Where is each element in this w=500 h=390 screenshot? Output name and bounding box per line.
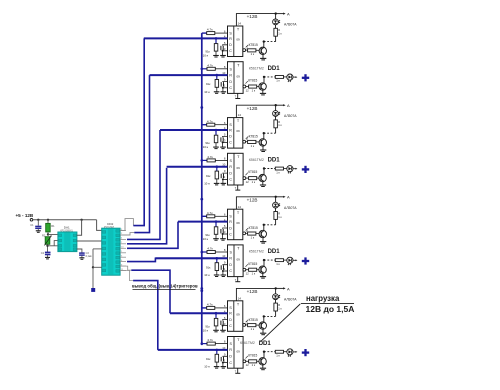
LED output (block 4) <box>287 166 293 172</box>
node junction R/pull-down (block 8) <box>216 349 219 352</box>
svg-text:4,7к: 4,7к <box>207 155 213 159</box>
node A arrow (pair 1) <box>276 13 284 15</box>
transistor KT815 (block 2) <box>259 83 266 90</box>
node junction R1/R2 to pin 7 <box>47 232 49 235</box>
node junction R/pull-down (block 6) <box>216 257 219 260</box>
svg-text:АЛ307А: АЛ307А <box>284 23 297 27</box>
svg-text:10 н: 10 н <box>203 54 209 58</box>
svg-text:12: 12 <box>246 272 250 276</box>
svg-text:АЛ307А: АЛ307А <box>284 206 297 210</box>
wire counter output 1 to block 1 (bus vertical) <box>120 219 133 231</box>
label KT815 (block 8) <box>246 356 248 359</box>
resistor 1k LED (block 5) <box>275 219 277 224</box>
svg-text:D: D <box>229 226 232 230</box>
node A arrow (pair 3) <box>276 196 284 198</box>
label KT815 (block 1) <box>246 45 249 47</box>
output Q pin 12 (block 6) <box>243 268 246 271</box>
svg-text:R: R <box>229 257 232 261</box>
resistor 1k base (block 6) <box>249 268 257 271</box>
output Q pin 2 (block 1) <box>243 49 246 52</box>
wire LED output arrow (block 4) <box>293 168 296 170</box>
capacitor 10n at C input (block 6) <box>223 264 228 267</box>
resistor 1k LED (block 8) <box>275 350 283 353</box>
svg-text:D: D <box>229 171 232 175</box>
svg-text:10 н: 10 н <box>204 365 210 369</box>
svg-text:12В до 1,5А: 12В до 1,5А <box>306 304 355 314</box>
capacitor C2 <box>45 251 51 253</box>
svg-text:+12В: +12В <box>247 106 258 111</box>
resistor 1k LED (block 6) <box>275 259 283 262</box>
ground emitter (block 7) <box>260 332 266 334</box>
LED AL307A (block 3) <box>275 116 277 120</box>
wire callout leader line <box>260 304 300 342</box>
flip-flop DD1.8 body (block 8) <box>228 337 244 369</box>
svg-text:КТ815: КТ815 <box>249 226 258 230</box>
transistor KT815 (block 8) <box>259 358 266 365</box>
resistor 4.7k input S (block 5) <box>202 215 207 217</box>
svg-text:АЛ307А: АЛ307А <box>284 297 297 301</box>
wire collector (block 5) <box>263 225 265 231</box>
transistor KT815 (block 1) <box>259 47 266 54</box>
resistor 4.7k input S (block 4) <box>201 159 204 162</box>
svg-text:D: D <box>229 43 232 47</box>
svg-text:09: 09 <box>237 258 241 262</box>
wire +12V rail (pair 1) <box>236 14 275 26</box>
resistor 91k pull-down (block 8) <box>215 354 219 362</box>
svg-text:R: R <box>229 37 232 41</box>
ground capacitor (block 1) <box>220 55 226 57</box>
label KT815 (block 2) <box>246 81 248 84</box>
wire emitter to ground (block 1) <box>262 54 264 58</box>
resistor 91k pull-down (block 4) <box>215 171 219 179</box>
plus polarity mark (block 4) <box>302 168 309 170</box>
svg-text:10 н: 10 н <box>203 145 209 149</box>
resistor 1k LED (block 4) <box>275 167 283 170</box>
svg-text:C: C <box>229 232 232 236</box>
capacitor C1 <box>37 220 39 226</box>
capacitor 10n at C input (block 1) <box>223 44 228 47</box>
flip-flop DD1.3 body (block 3) <box>228 118 243 149</box>
capacitor 10n at C input (block 7) <box>223 319 228 322</box>
svg-text:12: 12 <box>246 88 250 92</box>
wire counter output 4 to block 4 (bus vertical) <box>127 168 167 244</box>
wire R input from counter (block 3) <box>160 129 228 131</box>
pin 7 ground stub (block 8) <box>237 368 239 373</box>
pin 7 ground stub (block 6) <box>237 277 239 282</box>
node junction R/pull-down (block 7) <box>215 312 218 315</box>
svg-text:10 н: 10 н <box>204 90 210 94</box>
flip-flop DD1.1 body (block 1) <box>228 26 243 57</box>
transistor KT815 (block 5) <box>259 230 266 237</box>
svg-text:+12В: +12В <box>247 14 258 19</box>
ground pull-down (block 1) <box>213 55 219 57</box>
resistor 91k pull-down (block 6) <box>215 263 219 271</box>
resistor 4.7k input S (block 1) <box>202 32 207 34</box>
wire counter output 6 to block 6 (jog) <box>127 258 228 261</box>
svg-text:КТ815: КТ815 <box>249 43 258 47</box>
node junction on S line at underlined note <box>200 287 203 290</box>
svg-text:D: D <box>229 355 232 359</box>
svg-text:09: 09 <box>237 75 241 79</box>
svg-text:нагрузка: нагрузка <box>306 294 340 303</box>
svg-text:DD1: DD1 <box>268 66 281 72</box>
output Q pin 12 (block 8) <box>243 360 246 363</box>
flip-flop DD1.5 body (block 5) <box>228 209 243 240</box>
svg-text:А: А <box>287 195 290 200</box>
capacitor 10n at C input (block 2) <box>223 81 228 84</box>
LED AL307A (block 7) <box>275 300 277 304</box>
wire collector (block 1) <box>263 42 265 48</box>
node junction R/pull-down (block 1) <box>215 37 218 40</box>
ground emitter (block 4) <box>260 184 266 186</box>
svg-text:14: 14 <box>238 296 242 300</box>
svg-text:D: D <box>229 263 232 267</box>
svg-text:R: R <box>229 73 232 77</box>
ground capacitor (block 4) <box>221 182 227 184</box>
resistor 91k pull-down (block 7) <box>214 318 218 326</box>
LED AL307A (block 1) <box>275 25 277 29</box>
ground capacitor (block 7) <box>220 329 226 331</box>
svg-text:DD1: DD1 <box>268 249 281 255</box>
ground capacitor (block 2) <box>221 91 227 93</box>
transistor KT815 (block 4) <box>259 174 266 181</box>
svg-text:К561ТМ2: К561ТМ2 <box>249 250 264 254</box>
transistor KT815 (block 6) <box>259 266 266 273</box>
wire counter output 8 to block 8 (staircase down) <box>120 271 133 281</box>
ground pull-down (block 8) <box>214 366 220 368</box>
ground emitter (block 8) <box>260 367 266 369</box>
svg-text:АЛ307А: АЛ307А <box>284 114 297 118</box>
svg-text:R: R <box>278 303 280 307</box>
output Q pin 2 (block 3) <box>243 140 246 143</box>
svg-text:09: 09 <box>236 221 240 225</box>
ground capacitor (block 6) <box>221 274 227 276</box>
ground pull-down (block 2) <box>214 91 220 93</box>
wire emitter to ground (block 8) <box>262 365 264 368</box>
resistor 1k base (block 1) <box>248 49 256 52</box>
svg-text:09: 09 <box>237 349 241 353</box>
node junction R/pull-down (block 2) <box>216 74 219 77</box>
wire counter output 2 to block 2 (bus vertical) <box>120 233 134 235</box>
wire emitter to ground (block 5) <box>262 238 264 242</box>
node junction +12V/LED (pair 1) <box>275 12 277 14</box>
svg-text:КТ815: КТ815 <box>248 262 257 266</box>
ground emitter (block 1) <box>260 57 266 59</box>
svg-text:R: R <box>229 348 232 352</box>
capacitor 10n at C input (block 4) <box>223 172 228 175</box>
resistor R1 timing <box>47 220 49 224</box>
flip-flop DD1.6 body (block 6) <box>228 245 244 277</box>
wire VCC to timer pins 8,4 <box>80 219 82 221</box>
resistor 91k pull-down (block 3) <box>214 135 218 143</box>
wire R input from counter (block 4) <box>167 166 228 168</box>
label KT815 (block 3) <box>246 137 249 139</box>
ground pull-down (block 5) <box>213 238 219 240</box>
wire collector to LED row (block 4) <box>263 169 265 175</box>
node junction R/pull-down (block 5) <box>215 220 218 223</box>
transistor KT815 (block 7) <box>259 322 266 329</box>
LED output (block 6) <box>287 257 293 263</box>
plus polarity mark (block 2) <box>302 77 309 79</box>
svg-text:09: 09 <box>236 312 240 316</box>
label KT815 (block 4) <box>246 173 248 176</box>
wire +12V rail (pair 4) <box>236 288 275 300</box>
resistor 1k base (block 2) <box>249 85 257 88</box>
wire LED output arrow (block 6) <box>293 259 296 261</box>
pin 7 ground stub (block 4) <box>237 185 239 190</box>
terminal supply input <box>30 219 33 222</box>
svg-text:12: 12 <box>246 180 250 184</box>
wire LED output arrow (block 8) <box>293 351 296 353</box>
resistor 1k LED (block 7) <box>275 311 277 316</box>
wire collector to LED row (block 2) <box>263 77 265 83</box>
wire collector (block 3) <box>263 133 265 139</box>
svg-text:4,7к: 4,7к <box>207 28 213 32</box>
ground C2 <box>45 256 50 258</box>
ground C3 <box>79 257 84 259</box>
label KT815 (block 7) <box>246 320 249 322</box>
wire collector to LED row (block 8) <box>263 352 265 358</box>
output Q pin 12 (block 4) <box>243 177 246 180</box>
svg-text:R: R <box>229 220 232 224</box>
ground emitter (block 5) <box>260 241 266 243</box>
svg-text:вывод общ. (выв.14)триггеров: вывод общ. (выв.14)триггеров <box>132 284 198 289</box>
node junction R2/C2 to pins 2,6 <box>47 244 49 252</box>
wire collector to LED row (block 6) <box>263 260 265 266</box>
ground pull-down (block 3) <box>213 146 219 148</box>
svg-text:0,1мк: 0,1мк <box>86 255 93 258</box>
wire R input from counter (block 1) <box>144 37 228 39</box>
svg-text:R: R <box>278 28 280 32</box>
svg-text:А: А <box>287 12 290 17</box>
wire R input from counter (block 2) <box>150 74 228 76</box>
ground emitter (block 2) <box>260 92 266 94</box>
ground C1 <box>36 230 41 232</box>
svg-text:C: C <box>229 361 232 365</box>
wire R input from counter (block 7) <box>170 312 228 314</box>
svg-text:C: C <box>229 269 232 273</box>
resistor 4.7k input S (block 6) <box>201 251 204 254</box>
wire +12V rail (pair 2) <box>236 105 275 117</box>
ground emitter (block 3) <box>260 149 266 151</box>
resistor 1k LED (block 1) <box>275 36 277 41</box>
wire +12V rail (pair 3) <box>236 197 275 209</box>
svg-text:10 н: 10 н <box>203 328 209 332</box>
wire emitter to ground (block 4) <box>262 182 264 185</box>
node junction +12V/LED (pair 4) <box>275 287 277 289</box>
ground capacitor (block 8) <box>221 366 227 368</box>
svg-text:DD1: DD1 <box>268 158 281 164</box>
ground pull-down (block 6) <box>214 274 220 276</box>
svg-text:КТ815: КТ815 <box>248 353 257 357</box>
svg-text:12: 12 <box>246 363 250 367</box>
svg-text:14: 14 <box>238 205 242 209</box>
svg-text:4,7к: 4,7к <box>207 63 213 67</box>
node junction R/pull-down (block 3) <box>215 129 218 132</box>
wire counter output 7 to block 7 (staircase down) <box>120 266 131 270</box>
svg-text:КТ815: КТ815 <box>248 170 257 174</box>
LED output (block 8) <box>287 349 293 355</box>
node junction +12V/LED (pair 2) <box>275 104 277 106</box>
svg-text:D: D <box>229 135 232 139</box>
capacitor 10n at C input (block 8) <box>223 355 228 358</box>
resistor 1k base (block 7) <box>248 324 256 327</box>
svg-text:R: R <box>278 211 280 215</box>
svg-text:КТ815: КТ815 <box>249 135 258 139</box>
LED AL307A (block 5) <box>275 208 277 212</box>
resistor 91k pull-down (block 5) <box>214 227 218 235</box>
svg-text:4,7к: 4,7к <box>207 303 213 307</box>
wire common S line (vertical bus) <box>201 33 203 345</box>
label KT815 (block 6) <box>246 264 248 267</box>
label KT815 (block 5) <box>246 228 249 230</box>
node junction +12V/LED (pair 3) <box>275 196 277 198</box>
resistor 1k base (block 5) <box>248 232 256 235</box>
plus polarity mark (block 6) <box>302 260 309 262</box>
svg-text:С2: С2 <box>41 251 45 255</box>
wire emitter to ground (block 6) <box>262 273 264 276</box>
counter DD2 right pin stubs <box>120 230 126 232</box>
capacitor 10n at C input (block 3) <box>223 135 228 138</box>
wire emitter to ground (block 2) <box>262 90 264 93</box>
svg-text:C: C <box>229 178 232 182</box>
node junction C1 <box>37 219 39 221</box>
svg-text:К561ТМ2: К561ТМ2 <box>249 66 264 70</box>
svg-text:R1: R1 <box>51 224 55 228</box>
ground pull-down (block 4) <box>214 182 220 184</box>
wire supply rail <box>33 219 97 221</box>
resistor 4.7k input S (block 2) <box>201 68 204 71</box>
wire callout underline <box>301 303 354 305</box>
svg-text:+5 - 12В: +5 - 12В <box>16 213 34 218</box>
svg-text:R: R <box>229 128 232 132</box>
ground pull-down (block 7) <box>213 329 219 331</box>
wire counter output 3 to block 3 (bus vertical) <box>127 130 160 239</box>
svg-text:К561ТМ2: К561ТМ2 <box>249 158 264 162</box>
resistor 4.7k input S (block 8) <box>201 342 204 345</box>
flip-flop DD1.7 body (block 7) <box>228 301 243 332</box>
svg-text:А: А <box>287 286 290 291</box>
wire timer output pin 3 to counter clock <box>77 240 102 242</box>
svg-text:R: R <box>278 120 280 124</box>
svg-text:C: C <box>229 324 232 328</box>
resistor 1k LED (block 3) <box>275 128 277 133</box>
resistor 1k base (block 4) <box>249 177 257 180</box>
node junction R/pull-down (block 4) <box>216 165 219 168</box>
node junction R1 <box>47 219 49 221</box>
svg-text:С1: С1 <box>30 223 34 227</box>
svg-text:D: D <box>229 318 232 322</box>
resistor 4.7k input S (block 3) <box>202 124 207 126</box>
wire R input from counter (block 5) <box>178 221 228 223</box>
wire counter output 5 to block 5 (bus vertical) <box>127 222 178 249</box>
wire collector (block 7) <box>263 316 265 322</box>
svg-text:14: 14 <box>238 22 242 26</box>
output Q pin 2 (block 7) <box>243 324 246 327</box>
resistor 1k base (block 8) <box>249 360 257 363</box>
svg-text:+12В: +12В <box>247 289 258 294</box>
resistor 1k LED (block 2) <box>275 76 283 79</box>
ground capacitor (block 5) <box>220 238 226 240</box>
svg-text:14: 14 <box>238 113 242 117</box>
transistor KT815 (block 3) <box>259 139 266 146</box>
svg-text:09: 09 <box>237 166 241 170</box>
ground capacitor (block 3) <box>220 146 226 148</box>
svg-text:А: А <box>287 103 290 108</box>
svg-text:4,7к: 4,7к <box>207 338 213 342</box>
wire DD2 pin 13 and grounds to common point <box>93 248 102 250</box>
flip-flop DD1.4 body (block 4) <box>228 153 244 185</box>
svg-text:КТ815: КТ815 <box>248 79 257 83</box>
svg-text:4,7к: 4,7к <box>207 247 213 251</box>
svg-text:09: 09 <box>236 38 240 42</box>
node A arrow (pair 2) <box>276 104 284 106</box>
output Q pin 12 (block 2) <box>243 85 246 88</box>
svg-text:C: C <box>229 86 232 90</box>
svg-text:4,7к: 4,7к <box>207 119 213 123</box>
resistor 91k pull-down (block 1) <box>214 44 218 52</box>
resistor 91k pull-down (block 2) <box>215 80 219 88</box>
svg-text:09: 09 <box>236 129 240 133</box>
svg-text:C: C <box>229 141 232 145</box>
plus polarity mark (block 8) <box>302 351 309 353</box>
svg-text:DA1: DA1 <box>64 226 70 230</box>
pin 7 ground stub (block 2) <box>237 93 239 98</box>
node A arrow (pair 4) <box>276 287 284 289</box>
flip-flop DD1.2 body (block 2) <box>228 62 244 94</box>
resistor 4.7k input S (block 7) <box>202 307 207 309</box>
svg-text:10 н: 10 н <box>204 273 210 277</box>
svg-text:4,7к: 4,7к <box>207 211 213 215</box>
svg-text:R: R <box>229 312 232 316</box>
capacitor C3 <box>77 249 82 253</box>
wire LED output arrow (block 2) <box>293 76 296 78</box>
svg-text:10 н: 10 н <box>204 182 210 186</box>
svg-text:КТ815: КТ815 <box>249 318 258 322</box>
wire R input from counter (block 8) <box>158 349 228 351</box>
svg-text:D: D <box>229 80 232 84</box>
svg-text:+12В: +12В <box>247 197 258 202</box>
wire R input from counter (block 6) <box>155 257 227 259</box>
capacitor 10n at C input (block 5) <box>223 227 228 230</box>
svg-text:C: C <box>229 49 232 53</box>
wire emitter to ground (block 3) <box>262 146 264 150</box>
resistor 1k base (block 3) <box>248 140 256 143</box>
common point square <box>91 288 95 292</box>
wire emitter to ground (block 7) <box>262 329 264 333</box>
svg-text:К561ТМ2: К561ТМ2 <box>240 341 255 345</box>
ground emitter (block 6) <box>260 276 266 278</box>
LED output (block 2) <box>287 74 293 80</box>
svg-text:10 н: 10 н <box>203 237 209 241</box>
node extra junctions on S line <box>200 106 203 109</box>
output Q pin 2 (block 5) <box>243 232 246 235</box>
svg-text:R: R <box>229 165 232 169</box>
